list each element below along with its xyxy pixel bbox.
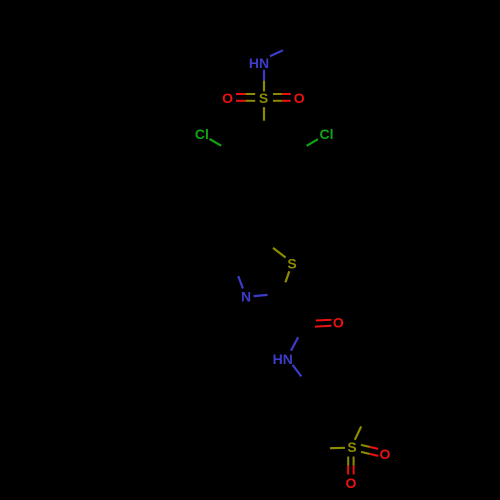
bond C7-N4 amide bbox=[291, 324, 306, 351]
svg-text:S: S bbox=[347, 439, 356, 455]
bond S1=O2 double bond right bbox=[273, 94, 291, 101]
bond C2-Cl right bbox=[295, 139, 318, 152]
bond S3=O5 double bond bottom bbox=[348, 457, 353, 475]
benzene ring (carbon bonds, black on black) bbox=[233, 134, 295, 206]
bond C4'=C5' (black) bbox=[234, 238, 261, 263]
bond S1=O1 double bond left bbox=[236, 94, 255, 101]
wire S1-C1 bbox=[263, 107, 265, 134]
bond S3-CH3 bbox=[355, 413, 368, 440]
svg-text:HN: HN bbox=[273, 351, 293, 367]
svg-text:O: O bbox=[294, 90, 305, 106]
bond C7=O3 amide carbonyl double bond bbox=[308, 320, 332, 327]
bond C2'-N3 bbox=[254, 294, 282, 297]
bond N3-C4' bbox=[234, 264, 243, 289]
wire N1-S1 bbox=[263, 70, 265, 92]
wire N1-CH3 (methyl on sulfonamide N) bbox=[270, 44, 296, 56]
svg-text:O: O bbox=[346, 475, 357, 491]
bond S3=O4 double bond right bbox=[361, 445, 378, 456]
bond S2-C2' bbox=[282, 271, 290, 293]
svg-text:O: O bbox=[333, 315, 344, 331]
svg-text:S: S bbox=[287, 256, 296, 272]
bond N4-CH2a bbox=[293, 365, 311, 389]
svg-text:O: O bbox=[222, 90, 233, 106]
bond C5'-S2 thiazole bbox=[260, 238, 285, 257]
wire C4-C5' (benzene to thiazole, black) bbox=[260, 206, 264, 238]
svg-text:Cl: Cl bbox=[195, 126, 209, 142]
svg-text:HN: HN bbox=[249, 55, 269, 71]
svg-text:N: N bbox=[241, 289, 251, 305]
wire C2'-C7 (to carbonyl, black) bbox=[282, 294, 306, 324]
svg-text:Cl: Cl bbox=[320, 126, 334, 142]
svg-text:O: O bbox=[380, 446, 391, 462]
bond CH2c-S3 bbox=[315, 447, 346, 450]
bond C6-Cl left bbox=[210, 139, 233, 153]
wire CH2a-CH2b-CH2c (black chain) bbox=[288, 388, 315, 448]
svg-text:S: S bbox=[259, 90, 268, 106]
